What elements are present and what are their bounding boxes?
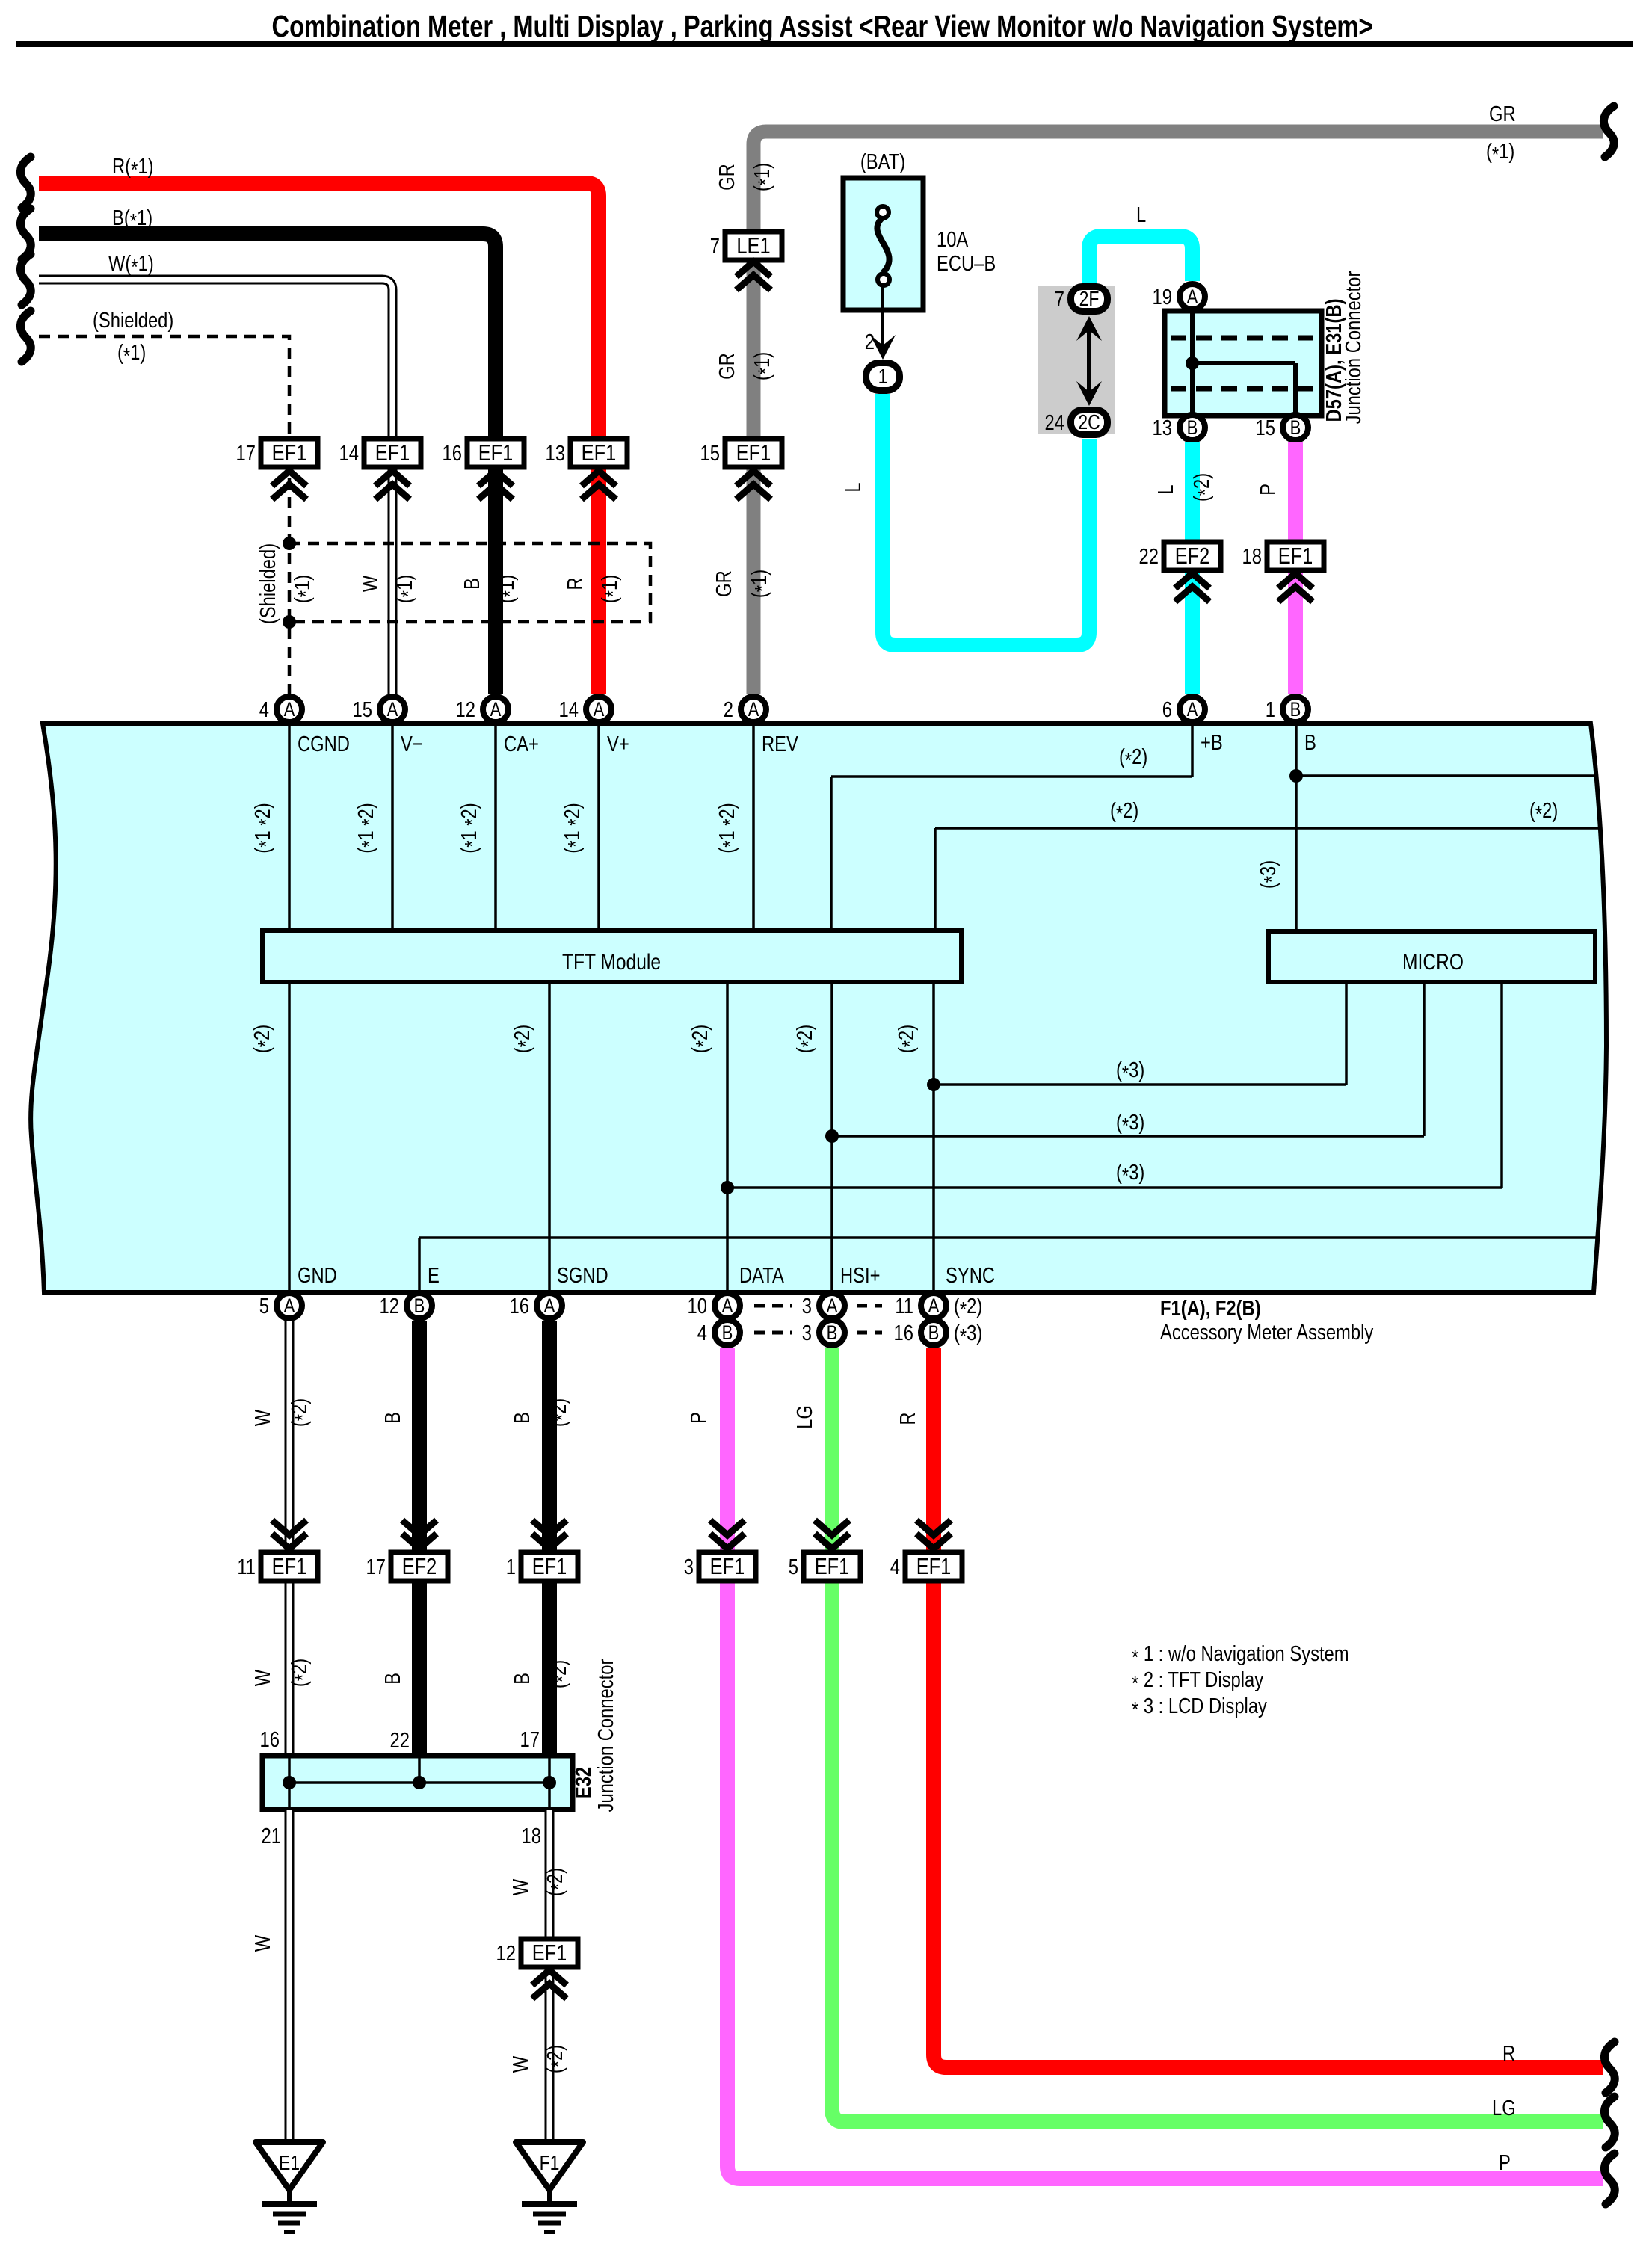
svg-text:B: B [380,1412,405,1424]
svg-text:2: 2 [865,330,875,354]
svg-text:7: 7 [710,234,720,259]
svg-text:LG: LG [1492,2096,1516,2120]
svg-text:R: R [896,1412,920,1425]
svg-text:F1: F1 [540,2152,560,2175]
svg-text:(*2): (*2) [543,1868,571,1896]
svg-text:EF1: EF1 [375,440,410,466]
svg-text:TFT Module: TFT Module [562,949,661,975]
svg-text:LG: LG [792,1405,817,1429]
svg-text:A: A [594,699,605,721]
svg-text:A: A [284,1295,295,1318]
svg-text:7: 7 [1055,287,1064,312]
svg-text:15: 15 [700,441,720,466]
svg-text:W: W [250,1410,275,1426]
svg-text:4: 4 [890,1555,900,1579]
svg-text:SGND: SGND [557,1263,608,1288]
svg-text:DATA: DATA [739,1263,784,1288]
svg-text:14: 14 [559,697,579,722]
svg-text:16: 16 [894,1321,913,1345]
svg-text:3: 3 [802,1294,812,1318]
svg-text:GR: GR [715,164,739,191]
svg-text:(*2): (*2) [250,1025,278,1053]
svg-text:(*2): (*2) [546,1660,575,1688]
svg-text:B: B [1290,699,1301,721]
svg-text:GR: GR [1489,102,1516,126]
svg-text:12: 12 [496,1941,516,1966]
svg-text:13: 13 [546,441,565,466]
svg-text:11: 11 [895,1294,913,1318]
svg-text:A: A [722,1295,733,1318]
svg-text:* 2 : TFT Display: * 2 : TFT Display [1132,1667,1264,1696]
svg-text:(*1): (*1) [750,163,778,191]
svg-text:(*2): (*2) [688,1025,716,1053]
svg-text:5: 5 [259,1294,269,1318]
svg-text:W(*1): W(*1) [108,251,154,280]
svg-text:R(*1): R(*1) [112,154,153,182]
svg-text:MICRO: MICRO [1402,949,1464,975]
svg-text:4: 4 [697,1321,707,1345]
svg-text:EF2: EF2 [402,1554,437,1580]
svg-text:B: B [510,1412,534,1424]
svg-text:(*1 *2): (*1 *2) [354,803,382,853]
svg-text:2F: 2F [1079,288,1100,311]
svg-text:REV: REV [762,732,798,756]
svg-text:(*1 *2): (*1 *2) [715,803,743,853]
svg-text:1: 1 [506,1555,516,1579]
svg-text:SYNC: SYNC [946,1263,995,1288]
svg-text:A: A [748,699,759,721]
svg-text:R: R [1502,2041,1515,2066]
svg-text:(*2): (*2) [1119,744,1147,773]
svg-text:(*1): (*1) [1486,139,1514,167]
svg-text:16: 16 [510,1294,529,1318]
svg-text:* 1 : w/o Navigation System: * 1 : w/o Navigation System [1132,1641,1349,1670]
svg-text:(*2): (*2) [1110,798,1138,827]
svg-text:W: W [250,1935,275,1952]
svg-text:P: P [1499,2150,1511,2175]
svg-text:24: 24 [1045,410,1064,435]
svg-text:B: B [460,578,484,590]
svg-text:V+: V+ [607,732,629,756]
svg-text:21: 21 [262,1824,281,1848]
svg-text:W: W [250,1670,275,1686]
svg-text:A: A [284,699,295,721]
svg-text:(*2): (*2) [546,1398,575,1427]
svg-text:(*1): (*1) [117,340,146,368]
svg-text:P: P [1256,484,1280,496]
svg-text:EF1: EF1 [710,1554,745,1580]
svg-text:EF1: EF1 [916,1554,952,1580]
svg-text:(*1): (*1) [597,575,626,603]
svg-text:B: B [1290,417,1301,439]
svg-text:A: A [1187,286,1198,309]
svg-text:B: B [1187,417,1198,439]
svg-text:Accessory Meter Assembly: Accessory Meter Assembly [1160,1320,1374,1345]
svg-text:16: 16 [260,1727,280,1752]
svg-text:(*1): (*1) [392,575,421,603]
svg-text:5: 5 [789,1555,798,1579]
svg-text:18: 18 [522,1824,541,1848]
svg-text:2C: 2C [1078,411,1100,434]
svg-text:15: 15 [1256,416,1275,440]
svg-text:GND: GND [298,1263,337,1288]
svg-text:V−: V− [401,732,423,756]
svg-text:EF1: EF1 [582,440,617,466]
svg-text:13: 13 [1153,416,1172,440]
svg-text:(*1): (*1) [290,575,318,603]
svg-text:E: E [428,1263,440,1288]
svg-text:B: B [510,1673,534,1685]
svg-text:A: A [490,699,502,721]
svg-text:B: B [722,1322,733,1345]
svg-text:EF1: EF1 [272,1554,307,1580]
svg-text:E1: E1 [279,2152,300,2175]
svg-text:B: B [414,1295,425,1318]
svg-text:(*1 *2): (*1 *2) [250,803,279,853]
svg-text:R: R [563,577,588,590]
svg-text:(*2): (*2) [543,2045,571,2073]
svg-text:A: A [387,699,398,721]
svg-text:HSI+: HSI+ [840,1263,880,1288]
svg-text:EF1: EF1 [532,1940,567,1966]
svg-text:Combination Meter , Multi Disp: Combination Meter , Multi Display , Park… [272,9,1373,43]
svg-text:(*1): (*1) [747,570,775,598]
svg-text:EF1: EF1 [736,440,771,466]
svg-text:10: 10 [688,1294,707,1318]
svg-text:(BAT): (BAT) [860,149,905,174]
svg-text:E32: E32 [571,1767,596,1798]
svg-text:12: 12 [380,1294,399,1318]
svg-text:19: 19 [1153,285,1172,309]
svg-text:(*1 *2): (*1 *2) [457,803,485,853]
svg-text:(*2): (*2) [1189,473,1218,502]
svg-text:1: 1 [1266,697,1275,722]
svg-text:15: 15 [353,697,372,722]
svg-text:(*2): (*2) [510,1025,538,1053]
svg-text:EF1: EF1 [1278,543,1313,570]
svg-text:P: P [686,1412,711,1424]
svg-text:(*1): (*1) [494,575,523,603]
svg-text:W: W [508,1879,533,1895]
svg-text:2: 2 [724,697,733,722]
svg-text:CA+: CA+ [504,732,539,756]
svg-text:(*3): (*3) [1116,1110,1144,1138]
svg-text:CGND: CGND [298,732,350,756]
svg-text:1: 1 [878,365,888,389]
svg-text:22: 22 [1139,544,1159,569]
svg-text:(*2): (*2) [287,1398,315,1427]
svg-text:12: 12 [456,697,475,722]
svg-text:ECU–B: ECU–B [937,251,996,276]
svg-text:EF1: EF1 [478,440,514,466]
svg-text:EF2: EF2 [1175,543,1210,570]
svg-text:L: L [1136,203,1146,227]
svg-text:* 3 : LCD Display: * 3 : LCD Display [1132,1694,1268,1722]
svg-text:11: 11 [237,1555,256,1579]
svg-text:EF1: EF1 [272,440,307,466]
svg-text:17: 17 [236,441,256,466]
svg-text:(*2): (*2) [954,1294,982,1322]
svg-text:B(*1): B(*1) [112,206,152,234]
svg-text:(*2): (*2) [792,1025,821,1053]
svg-text:W: W [358,576,383,592]
svg-text:A: A [1187,699,1198,721]
svg-text:A: A [544,1295,555,1318]
svg-text:W: W [508,2056,533,2073]
svg-text:L: L [1153,484,1178,494]
svg-text:(*3): (*3) [1116,1058,1144,1086]
svg-text:GR: GR [712,570,736,597]
svg-text:B: B [928,1322,940,1345]
svg-text:4: 4 [259,697,269,722]
svg-text:B: B [1304,730,1316,755]
svg-text:LE1: LE1 [736,233,770,259]
svg-text:(*1): (*1) [750,352,778,380]
svg-text:(*2): (*2) [894,1025,922,1053]
svg-text:3: 3 [684,1555,694,1579]
svg-text:17: 17 [366,1555,386,1579]
svg-text:(*3): (*3) [1256,860,1284,889]
svg-text:A: A [928,1295,940,1318]
svg-text:16: 16 [443,441,462,466]
svg-text:6: 6 [1162,697,1172,722]
svg-text:+B: +B [1201,730,1223,755]
svg-text:18: 18 [1242,544,1262,569]
svg-text:(*2): (*2) [287,1659,315,1687]
svg-text:L: L [841,482,866,492]
svg-text:(*1 *2): (*1 *2) [560,803,588,853]
svg-text:(*2): (*2) [1529,798,1558,827]
svg-text:10A: 10A [937,227,969,252]
svg-text:3: 3 [802,1321,812,1345]
svg-text:GR: GR [715,353,739,380]
svg-text:Junction Connector: Junction Connector [594,1659,618,1812]
svg-text:14: 14 [339,441,359,466]
svg-text:F1(A), F2(B): F1(A), F2(B) [1160,1296,1261,1321]
svg-text:(*3): (*3) [954,1321,982,1349]
svg-text:B: B [380,1673,405,1685]
svg-text:EF1: EF1 [815,1554,850,1580]
svg-text:B: B [827,1322,838,1345]
svg-text:17: 17 [520,1727,540,1752]
svg-text:Junction Connector: Junction Connector [1341,271,1366,424]
svg-text:(Shielded): (Shielded) [93,308,173,333]
svg-text:EF1: EF1 [532,1554,567,1580]
svg-text:22: 22 [390,1728,410,1753]
svg-text:(*3): (*3) [1116,1160,1144,1188]
svg-text:(Shielded): (Shielded) [256,543,280,624]
svg-text:A: A [827,1295,838,1318]
